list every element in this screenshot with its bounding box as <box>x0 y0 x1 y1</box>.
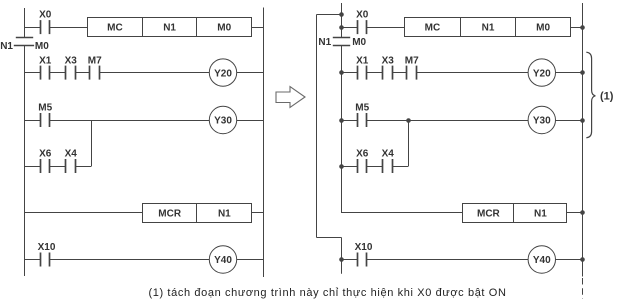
svg-text:MCR: MCR <box>477 209 501 220</box>
svg-text:X1: X1 <box>39 55 52 66</box>
svg-text:Y20: Y20 <box>214 68 232 79</box>
svg-text:N1: N1 <box>218 209 231 220</box>
svg-text:Y20: Y20 <box>533 68 551 79</box>
svg-text:N1: N1 <box>534 209 547 220</box>
svg-text:MC: MC <box>425 23 441 34</box>
svg-text:M0: M0 <box>35 41 49 52</box>
svg-text:Y30: Y30 <box>214 116 232 127</box>
svg-text:X10: X10 <box>38 242 56 253</box>
svg-text:X4: X4 <box>382 149 395 160</box>
svg-text:X1: X1 <box>356 55 369 66</box>
svg-text:X0: X0 <box>39 10 52 21</box>
svg-text:N1: N1 <box>0 41 13 52</box>
svg-text:N1: N1 <box>163 23 176 34</box>
svg-text:(1) tách đoạn chương trình này: (1) tách đoạn chương trình này chỉ thực … <box>148 287 506 299</box>
svg-text:M0: M0 <box>352 37 366 48</box>
svg-text:X0: X0 <box>356 10 369 21</box>
svg-text:MCR: MCR <box>158 209 182 220</box>
svg-text:Y40: Y40 <box>533 255 551 266</box>
svg-text:M7: M7 <box>405 55 419 66</box>
svg-text:N1: N1 <box>482 23 495 34</box>
svg-text:Y40: Y40 <box>214 255 232 266</box>
svg-text:M5: M5 <box>38 103 52 114</box>
svg-text:M0: M0 <box>536 23 550 34</box>
svg-text:X4: X4 <box>65 149 78 160</box>
svg-text:X3: X3 <box>382 55 395 66</box>
svg-text:M0: M0 <box>217 23 231 34</box>
svg-text:X3: X3 <box>65 55 78 66</box>
svg-text:X6: X6 <box>356 149 369 160</box>
svg-text:N1: N1 <box>318 37 331 48</box>
svg-text:(1): (1) <box>600 91 614 103</box>
svg-text:X10: X10 <box>355 242 373 253</box>
svg-text:M5: M5 <box>355 103 369 114</box>
svg-text:X6: X6 <box>39 149 52 160</box>
svg-text:MC: MC <box>107 23 123 34</box>
svg-text:M7: M7 <box>88 55 102 66</box>
svg-text:Y30: Y30 <box>533 116 551 127</box>
